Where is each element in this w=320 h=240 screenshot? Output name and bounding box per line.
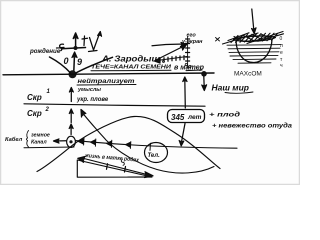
funnel right arm (76, 57, 113, 73)
svg-text:Скр: Скр (27, 93, 42, 102)
left curl e (57, 44, 65, 50)
svg-text:лет: лет (187, 114, 202, 121)
triangle (77, 156, 153, 177)
svg-text:0: 0 (280, 36, 283, 42)
bowl horizontal hatch lines (227, 45, 281, 64)
svg-text:МАХсОМ: МАХсОМ (234, 71, 262, 78)
big node dot (69, 70, 77, 78)
svg-text:+ невежество отуда: + невежество отуда (212, 123, 293, 130)
up arrow from big dot (72, 52, 77, 72)
bowl cup (236, 40, 272, 63)
big dome arc (37, 116, 220, 171)
up-arrow chain segment 3 (69, 124, 73, 135)
Тел circle (145, 143, 168, 163)
svg-text:Тел.: Тел. (148, 153, 161, 159)
small o node (163, 61, 165, 63)
funnel left arm (50, 57, 71, 73)
up-arrow chain segment 2 (69, 109, 73, 123)
underline under течение (91, 69, 202, 72)
svg-text:+ плод: + плод (209, 111, 240, 119)
svg-text:укр. плове: укр. плове (76, 97, 109, 103)
ruler vertical with ticks (185, 37, 191, 69)
axis origin dot (74, 46, 78, 50)
svg-text:умыслы: умыслы (77, 87, 101, 93)
node dot at line end (201, 71, 207, 77)
bottom timeline (76, 141, 238, 149)
up-arrow chain segment 1 (69, 88, 73, 102)
svg-text:Наш мир: Наш мир (212, 83, 249, 93)
svg-text:9: 9 (77, 57, 82, 67)
svg-text:у-экран: у-экран (181, 39, 203, 45)
left arrow from circle (54, 139, 67, 143)
arrow into bowl (252, 9, 256, 34)
horizontal arrow to ruler (152, 43, 187, 47)
diagonal arrow (156, 45, 187, 61)
svg-text:его: его (187, 33, 197, 39)
small asterisk mark (216, 38, 220, 42)
t label (82, 36, 88, 46)
text Кабел brace земное Канал (5, 131, 74, 148)
ticked left arrow (155, 56, 188, 63)
circled plus node (67, 136, 76, 147)
svg-text:е: е (280, 50, 283, 56)
bowl lid lens (234, 36, 276, 41)
Скр line (24, 104, 205, 106)
S-curve arrow (81, 110, 214, 174)
svg-text:Кабел: Кабел (5, 136, 23, 143)
svg-text:Скр: Скр (27, 109, 42, 118)
main horizontal line (3, 73, 214, 75)
down arrow from box to timeline (179, 124, 185, 146)
vertical line from main line to 345 box with up arrowhead (183, 77, 187, 108)
axis vertical arrow (73, 33, 78, 48)
svg-text:Канал: Канал (31, 140, 47, 146)
V checkmark arrow (89, 32, 102, 52)
svg-text:ч: ч (280, 63, 283, 69)
lid cross hatch (223, 32, 284, 45)
svg-text:нейтрализует: нейтрализует (78, 78, 136, 85)
svg-text:А. Зародыш: А. Зародыш (101, 55, 160, 64)
svg-text:рождение: рождение (29, 48, 61, 55)
down arrow Наш мир (202, 77, 207, 91)
vertical age column (280, 36, 284, 69)
svg-text:345: 345 (171, 113, 185, 122)
svg-text:земное: земное (31, 133, 50, 139)
axis horizontal line (62, 48, 86, 49)
svg-text:л: л (280, 43, 283, 49)
svg-text:2: 2 (45, 107, 50, 113)
svg-text:ТЕЧЕ=КАНАЛ СЕМЕНИ: ТЕЧЕ=КАНАЛ СЕМЕНИ (91, 65, 172, 71)
box 345 лет (168, 110, 205, 123)
timeline tick arrows (78, 138, 151, 151)
svg-text:0: 0 (64, 56, 69, 66)
